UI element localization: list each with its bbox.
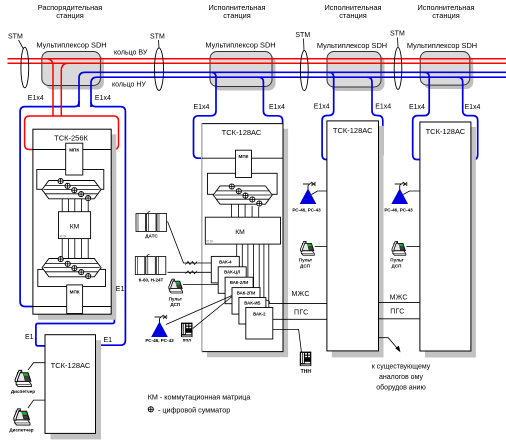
svg-text:станция: станция — [432, 11, 460, 20]
svg-text:ВАК-2: ВАК-2 — [253, 311, 266, 316]
ТСК-256К top divider — [33, 149, 111, 151]
ТСК-128АС box4 — [420, 122, 471, 351]
svg-text:Диспетчер: Диспетчер — [11, 389, 35, 394]
ПГС line station3-4 — [379, 318, 420, 320]
ТСК-128АС box2 shadow — [207, 129, 288, 358]
svg-text:Пульт: Пульт — [390, 258, 404, 263]
lower ТСК-128АС box — [45, 335, 96, 434]
КМ box station1 — [59, 212, 91, 239]
multiplexer SDH 2 (shadow) — [214, 55, 276, 91]
ВАК-ИБ box — [239, 298, 266, 325]
station1 red tap 1 from ring — [46, 59, 53, 116]
svg-text:ВАК-ЦЛ: ВАК-ЦЛ — [224, 270, 240, 275]
multiplexer SDH 2 — [210, 52, 272, 87]
wire ДАТС to box2 — [168, 221, 212, 263]
svg-text:ТСК-128АС: ТСК-128АС — [222, 128, 262, 137]
station3 blue tap right — [367, 77, 383, 159]
svg-text:МЖС: МЖС — [292, 291, 310, 298]
svg-text:ТСК-128АС: ТСК-128АС — [333, 126, 373, 135]
Диспетчер phone 1 — [11, 370, 35, 394]
wire ППЛ to cascade — [193, 297, 232, 329]
svg-text:РС-46, РС-43: РС-46, РС-43 — [292, 208, 321, 213]
МЖС hook from ВАК-ИБ — [266, 301, 270, 304]
svg-text:ДСП: ДСП — [392, 263, 402, 268]
svg-text:E1x4: E1x4 — [314, 104, 330, 111]
МЖС line station2-3 — [269, 302, 327, 304]
svg-text:E1: E1 — [104, 337, 113, 344]
station2 blue tap right — [258, 77, 282, 158]
station1 upper summator hexagon — [42, 179, 101, 201]
Пульт ДСП phone station4 — [390, 241, 405, 268]
ТНН icon — [300, 352, 312, 375]
svg-text:STM: STM — [8, 34, 23, 41]
svg-text:E1x4: E1x4 — [95, 95, 111, 102]
svg-text:ВАК-2ПИ: ВАК-2ПИ — [237, 291, 256, 296]
Диспетчер phone 2 — [9, 409, 33, 432]
ТСК-128АС box3 — [327, 121, 379, 351]
svg-text:ТНН: ТНН — [301, 369, 312, 375]
svg-text:станция: станция — [56, 11, 84, 20]
station1 upper МПК box — [66, 143, 83, 175]
label к существующему аналоговому оборудованию — [372, 364, 431, 392]
ТСК-128АС box2 — [202, 124, 283, 352]
svg-text:МПК: МПК — [70, 289, 80, 294]
station2 МПК box — [236, 150, 252, 177]
wavy mark 1 — [186, 262, 198, 265]
wire lower box to Диспетчер 1 — [28, 363, 45, 370]
svg-text:Е1: Е1 — [116, 286, 125, 293]
svg-text:E1: E1 — [25, 334, 34, 341]
РС-46 РС-43 antenna station2 — [145, 315, 174, 343]
wire antenna3 to box3 — [312, 191, 327, 195]
multiplexer SDH 1 (shadow) — [45, 55, 104, 90]
КМ box station2 — [205, 217, 280, 244]
station1 lower container rect — [38, 269, 106, 286]
STM tick 4 — [397, 38, 400, 48]
wire к существующему with arrow — [379, 338, 401, 353]
wire lower box to Диспетчер 2 — [28, 400, 45, 408]
STM tick 1 — [19, 40, 24, 49]
ТСК-256К bottom divider — [33, 306, 111, 308]
Пульт ДСП phone station3 — [299, 241, 314, 268]
svg-text:STM: STM — [390, 31, 405, 38]
header: Исполнительная станция 3 — [324, 3, 381, 20]
header: Распорядительная станция — [38, 3, 103, 20]
wire phone3 to box3 — [315, 245, 327, 247]
svg-text:ВАК-4: ВАК-4 — [219, 259, 232, 264]
STM ellipse 2 — [155, 48, 164, 91]
station3 blue tap left — [322, 72, 334, 159]
STM ellipse 1 — [21, 47, 29, 88]
wire К-60 to box2 — [168, 271, 212, 273]
svg-text:ДСП: ДСП — [300, 263, 310, 268]
station4 blue tap left — [413, 72, 430, 159]
station1 upper container rect — [37, 170, 104, 190]
ВАК-ЦЛ box — [218, 267, 246, 294]
svg-text:⊂⊃: ⊂⊃ — [60, 233, 67, 238]
STM ellipse 3 — [300, 51, 308, 91]
ПГС line station2-3 — [273, 318, 327, 320]
wire phone4 to box4 — [406, 245, 420, 247]
ring ВУ red line 1 — [8, 58, 506, 60]
svg-text:⊂⊃: ⊂⊃ — [206, 239, 213, 244]
К-60 Н-24Т rack — [135, 255, 166, 283]
svg-text:STM: STM — [295, 32, 310, 39]
station1 red tap 2 from ring — [61, 63, 68, 116]
ППЛ icon — [181, 323, 193, 343]
ring ВУ red line 2 — [8, 62, 506, 64]
wire antenna to cascade — [166, 296, 232, 325]
header: Исполнительная станция 4 — [417, 3, 474, 20]
ТСК-128АС box4 shadow — [425, 127, 476, 358]
svg-text:МПК: МПК — [69, 147, 79, 152]
svg-text:ТСК-256К: ТСК-256К — [54, 134, 88, 143]
svg-text:E1x4: E1x4 — [28, 95, 44, 102]
svg-text:ПГС: ПГС — [390, 309, 404, 316]
station2 summator hexagon — [213, 184, 272, 206]
ТСК-128АС box3 shadow — [332, 126, 384, 358]
svg-text:Пульт: Пульт — [169, 296, 183, 301]
Пульт ДСП phone station2 — [169, 279, 183, 307]
svg-text:E1x4: E1x4 — [194, 104, 210, 111]
multiplexer SDH 1 — [42, 52, 101, 86]
svg-text:E1x4: E1x4 — [269, 104, 285, 111]
svg-text:E1x4: E1x4 — [409, 104, 425, 111]
svg-text:Мультиплексор SDH: Мультиплексор SDH — [205, 41, 275, 50]
STM tick 3 — [303, 39, 306, 51]
lower ТСК-128АС box shadow — [51, 340, 102, 439]
station1 red frame — [25, 116, 119, 150]
svg-text:Пульт: Пульт — [299, 258, 313, 263]
header: Исполнительная станция 2 — [208, 3, 265, 20]
svg-text:ДСП: ДСП — [170, 302, 180, 307]
ring НУ blue line 2 — [91, 77, 506, 107]
svg-text:станция: станция — [339, 11, 367, 20]
svg-text:ТСК-128АС: ТСК-128АС — [51, 361, 91, 370]
wire Пульт ДСП to cascade — [183, 284, 218, 286]
wire ВАК-2 to ТНН — [273, 329, 302, 352]
STM tick 2 — [158, 40, 161, 48]
station1 blue lower connector — [36, 307, 115, 346]
svg-text:E1x4: E1x4 — [375, 104, 391, 111]
station1 blue frame corner into ring tap left — [75, 101, 80, 107]
ring НУ blue line 1 — [79, 72, 506, 107]
svg-text:ВАК-ИБ: ВАК-ИБ — [244, 300, 260, 305]
svg-text:Мультиплексор SDH: Мультиплексор SDH — [36, 41, 106, 50]
station1 blue frame top-left segment — [20, 107, 74, 307]
station1 wires КМ to lower hexagon — [62, 239, 88, 275]
multiplexer SDH 3 — [327, 52, 381, 88]
STM ellipse 4 — [394, 47, 402, 89]
ТСК-256К main box — [33, 129, 111, 314]
legend сумматор symbol — [148, 407, 153, 412]
box2 divider — [202, 157, 283, 159]
svg-text:К-60, Н-24Т: К-60, Н-24Т — [139, 278, 164, 283]
station1 lower summator hexagon — [42, 257, 101, 279]
svg-text:Мультиплексор SDH: Мультиплексор SDH — [317, 41, 387, 50]
РС-46 РС-43 antenna station3 — [292, 182, 321, 213]
svg-text:РС-46, РС-43: РС-46, РС-43 — [145, 338, 174, 343]
multiplexer SDH 3 (shadow) — [331, 55, 385, 91]
svg-text:ВАК-2ЛИ: ВАК-2ЛИ — [230, 280, 249, 285]
svg-text:МПК: МПК — [239, 154, 249, 159]
svg-text:к существующему: к существующему — [372, 364, 431, 371]
station2 blue tap left — [194, 72, 217, 158]
multiplexer SDH 4 — [420, 52, 470, 86]
station1 lower МПК box — [67, 285, 83, 314]
multiplexer SDH 4 (shadow) — [424, 55, 474, 89]
ВАК-2ПИ box — [232, 288, 260, 315]
svg-text:КМ: КМ — [235, 229, 245, 236]
svg-text:ПГС: ПГС — [294, 310, 308, 317]
station4 blue tap right — [458, 77, 478, 159]
ВАК-4 box — [211, 256, 239, 283]
svg-text:РС-46, РС-43: РС-46, РС-43 — [384, 208, 413, 213]
ТСК-256К box shadow — [38, 134, 116, 319]
svg-text:E1x4: E1x4 — [465, 104, 481, 111]
svg-text:МЖС: МЖС — [390, 295, 408, 302]
wire antenna4 to box4 — [403, 191, 420, 195]
МЖС line station3-4 — [379, 302, 420, 304]
svg-text:станция: станция — [223, 11, 251, 20]
svg-text:- цифровой сумматор: - цифровой сумматор — [158, 406, 230, 415]
svg-text:оборудов анию: оборудов анию — [376, 384, 425, 392]
svg-text:кольцо НУ: кольцо НУ — [112, 82, 146, 89]
svg-text:кольцо ВУ: кольцо ВУ — [114, 50, 148, 57]
svg-text:STM: STM — [150, 34, 165, 41]
station1 wires hexagon to КМ — [62, 199, 88, 212]
svg-text:КМ: КМ — [70, 223, 80, 230]
ВАК-2ЛИ box — [225, 277, 253, 304]
svg-text:аналогов ому: аналогов ому — [379, 374, 423, 381]
svg-text:Диспетчер: Диспетчер — [9, 427, 33, 432]
ВАК-2 box — [246, 308, 273, 340]
station1 blue frame top-right segment — [91, 102, 125, 345]
svg-text:ТСК-128АС: ТСК-128АС — [426, 127, 466, 136]
svg-text:КМ - коммутационная матрица: КМ - коммутационная матрица — [148, 393, 251, 402]
svg-text:ппл: ппл — [183, 338, 192, 343]
ДАТС rack — [136, 212, 167, 239]
РС-46 РС-43 antenna station4 — [384, 182, 413, 213]
wavy mark 2 — [186, 271, 198, 274]
station2 wires КМ to ВАК cascade — [237, 244, 269, 307]
station2 wires hexagon to КМ — [232, 205, 259, 218]
svg-text:ДАТС: ДАТС — [145, 234, 158, 239]
station2 container rect — [208, 173, 278, 194]
svg-text:Мультиплексор SDH: Мультиплексор SDH — [407, 41, 477, 50]
